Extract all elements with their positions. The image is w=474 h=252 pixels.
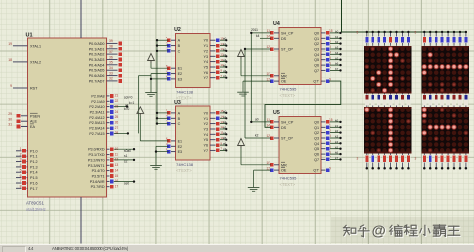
- svg-text:17: 17: [115, 185, 119, 189]
- svg-text:14: 14: [115, 168, 119, 172]
- DM3 bottom junctions: [366, 167, 410, 170]
- U2 input pins A B C: [166, 36, 181, 53]
- svg-text:2: 2: [20, 152, 22, 156]
- junction ST_CP U4: [244, 48, 246, 50]
- middle interconnect pins DM2-DM4: [423, 93, 468, 107]
- svg-text:P1.4: P1.4: [30, 171, 38, 175]
- svg-text:U2: U2: [174, 27, 181, 33]
- IC U4 74HC595 shift register: [273, 21, 321, 85]
- wire P2.7 to node: [114, 132, 128, 134]
- DM4 bottom pins and indicators: [423, 154, 468, 169]
- svg-text:27: 27: [115, 126, 119, 130]
- net label U5 SH_CP: [255, 118, 259, 122]
- wire U1 power pin up: [80, 0, 82, 38]
- svg-text:Y6: Y6: [203, 71, 208, 75]
- svg-text:15: 15: [115, 174, 119, 178]
- IC U5 74HC595 shift register: [273, 110, 321, 174]
- U1 right pin stubs: [107, 43, 118, 186]
- ground symbol below U5: [248, 187, 260, 192]
- svg-text:5: 5: [415, 31, 417, 35]
- junctions U4 output column: [339, 32, 341, 72]
- net label U5 ST_CP: [255, 134, 259, 138]
- U1 right pin logic-state indicators: [110, 41, 123, 189]
- svg-text:P3.0/RXD: P3.0/RXD: [88, 148, 105, 152]
- svg-text:U4: U4: [273, 21, 280, 27]
- watermark text zhihu at-bianchengxiaobawang: [343, 224, 460, 241]
- U2 output state indicators: [216, 38, 220, 79]
- svg-text:P3.3/INT1: P3.3/INT1: [88, 164, 105, 168]
- svg-text:P2.5/A13: P2.5/A13: [89, 121, 104, 125]
- svg-text:C: C: [178, 49, 181, 53]
- U3 input state indicators: [167, 111, 171, 126]
- U1 part name AT89C51: [26, 201, 46, 213]
- svg-text:C: C: [178, 122, 181, 126]
- wire SH_CP bus: [251, 33, 271, 122]
- svg-text:13: 13: [115, 163, 119, 167]
- ground symbol below U4: [237, 92, 249, 96]
- junction P3.6: [133, 180, 135, 182]
- junctions U2 inputs: [156, 39, 158, 52]
- svg-text:k4: k4: [256, 34, 260, 38]
- svg-text:P1.6: P1.6: [30, 182, 38, 186]
- svg-text:P0.2/AD2: P0.2/AD2: [89, 53, 105, 57]
- svg-text:Q2: Q2: [314, 42, 319, 46]
- svg-text:k2: k2: [255, 134, 259, 138]
- U2 part name 74HC138: [176, 90, 194, 101]
- svg-text:Y2: Y2: [203, 49, 208, 53]
- svg-text:P2.7/A15: P2.7/A15: [89, 132, 104, 136]
- U4 left state indicators: [270, 31, 274, 83]
- wire matrix top rail: [342, 31, 466, 33]
- wire P3.6: [114, 181, 134, 183]
- svg-text:a0: a0: [255, 118, 259, 122]
- svg-text:1: 1: [20, 147, 22, 151]
- U5 left pins: [266, 118, 293, 173]
- svg-text:Q4: Q4: [314, 142, 319, 146]
- svg-text:3: 3: [20, 158, 22, 162]
- DM1 top pins and indicators: [365, 32, 410, 46]
- svg-text:P0.3/AD3: P0.3/AD3: [89, 58, 105, 62]
- svg-text:36: 36: [109, 55, 113, 59]
- svg-text:Y5: Y5: [203, 66, 208, 70]
- svg-text:k=1: k=1: [129, 101, 134, 105]
- svg-text:MR: MR: [281, 74, 287, 78]
- wires bus to U3 inputs: [157, 113, 169, 124]
- svg-text:P1.1: P1.1: [30, 155, 38, 159]
- svg-text:3: 3: [415, 157, 417, 161]
- U3 enable pins E1 E2 E3: [166, 137, 182, 154]
- power +5V symbol near U3: [137, 107, 144, 116]
- svg-text:Q7': Q7': [313, 169, 319, 173]
- svg-text:P2.0/A8: P2.0/A8: [91, 94, 104, 98]
- svg-text:P3.6/WR: P3.6/WR: [90, 180, 105, 184]
- IC U1 AT89C51 microcontroller: [26, 33, 107, 198]
- svg-text:P0.0/AD0: P0.0/AD0: [89, 42, 105, 46]
- svg-text:Q5: Q5: [314, 147, 319, 151]
- svg-text:Y1: Y1: [203, 117, 208, 121]
- U4 output pins Q0-Q7: [313, 29, 332, 84]
- junction P3.2: [133, 159, 135, 161]
- power +5V symbol near U5: [238, 139, 245, 149]
- U2 output pins Y0-Y7: [203, 36, 224, 80]
- svg-text:P3.7/RD: P3.7/RD: [91, 185, 105, 189]
- junction U2 E2: [150, 78, 152, 80]
- svg-text:Y3: Y3: [203, 128, 208, 132]
- svg-text:74HC138: 74HC138: [176, 162, 194, 167]
- svg-text:74HC595: 74HC595: [280, 176, 298, 181]
- wire U4 OE to ground: [243, 81, 271, 92]
- svg-text:Y5: Y5: [203, 138, 208, 142]
- svg-text:P3.2/INT0: P3.2/INT0: [88, 158, 105, 162]
- svg-text:P1.5: P1.5: [30, 176, 38, 180]
- U2 enable state indicators: [167, 66, 171, 81]
- junction SH_CP U5: [250, 121, 252, 123]
- svg-text:Q0: Q0: [314, 31, 319, 35]
- junction P2.7: [127, 132, 129, 134]
- svg-text:a1: a1: [125, 104, 129, 108]
- junction P3.0: [133, 148, 135, 150]
- svg-text:OE: OE: [281, 80, 287, 84]
- svg-text:6: 6: [20, 174, 22, 178]
- net label above U4: [251, 28, 258, 32]
- svg-text:18: 18: [8, 58, 12, 62]
- DM1 top pin number: [357, 31, 359, 35]
- wire U5 OE to ground: [254, 170, 271, 186]
- junctions U5 output column: [339, 121, 341, 161]
- U3 part name 74HC138: [176, 162, 194, 173]
- svg-text:sck=0: sck=0: [124, 96, 133, 100]
- DM4 bottom pin number: [415, 157, 417, 161]
- LED dot matrix DM2: [421, 46, 469, 94]
- svg-text:SH_CP: SH_CP: [281, 120, 294, 124]
- wires U2 E2 E3 to ground: [151, 74, 169, 92]
- svg-text:P2.3/A11: P2.3/A11: [90, 111, 105, 115]
- svg-text:U3: U3: [174, 100, 181, 106]
- svg-text:Y4: Y4: [203, 60, 208, 64]
- svg-text:U1: U1: [26, 33, 33, 39]
- U1 right pin numbers: [109, 39, 118, 188]
- svg-text:3: 3: [357, 157, 359, 161]
- svg-text:SH_CP: SH_CP: [281, 31, 294, 35]
- svg-text:39: 39: [109, 39, 113, 43]
- U5 output pins Q0-Q7: [313, 118, 332, 173]
- U1 left pin labels: [30, 44, 41, 191]
- U3 output net labels and wires: [220, 109, 227, 150]
- svg-text:P1.0: P1.0: [30, 149, 38, 153]
- wire U1 ground pin down: [80, 197, 82, 244]
- svg-text:Y2: Y2: [203, 122, 208, 126]
- wires U4 outputs to matrix columns: [330, 33, 341, 71]
- svg-text:P0.5/AD5: P0.5/AD5: [89, 69, 105, 73]
- svg-text:PSEN: PSEN: [30, 114, 40, 118]
- wire power to U3 E1: [140, 116, 168, 141]
- svg-text:XTAL2: XTAL2: [30, 60, 41, 64]
- wire +5V rail top vertical: [341, 0, 343, 32]
- svg-text:<TEXT>: <TEXT>: [176, 168, 192, 173]
- svg-text:U5: U5: [273, 110, 280, 116]
- svg-text:P2.2/A10: P2.2/A10: [89, 105, 104, 109]
- svg-text:5: 5: [20, 168, 22, 172]
- svg-text:<TEXT>: <TEXT>: [280, 182, 296, 187]
- junctions U3 inputs: [156, 112, 158, 125]
- svg-text:22: 22: [115, 99, 119, 103]
- wire P3.2: [114, 159, 134, 161]
- U4 output net labels: [335, 30, 339, 72]
- svg-text:s1: s1: [124, 154, 128, 158]
- svg-text:32: 32: [109, 77, 113, 81]
- svg-text:xtal12MHz: xtal12MHz: [26, 207, 46, 212]
- DM2 top rail junctions: [423, 31, 467, 33]
- DM2 top pin number: [415, 31, 417, 35]
- wire vertical bus x=138: [138, 76, 151, 134]
- svg-text:Q3: Q3: [314, 48, 319, 52]
- DM3 bottom pins and indicators: [365, 154, 410, 169]
- svg-text:P1.2: P1.2: [30, 160, 38, 164]
- svg-text:35: 35: [109, 61, 113, 65]
- svg-text:P1.7: P1.7: [30, 187, 38, 191]
- svg-text:11: 11: [115, 152, 119, 156]
- svg-text:Q3: Q3: [314, 137, 319, 141]
- DM4 bottom junctions: [423, 167, 467, 170]
- svg-text:30: 30: [8, 117, 12, 121]
- svg-text:74HC595: 74HC595: [280, 87, 298, 92]
- svg-text:P0.6/AD6: P0.6/AD6: [89, 74, 105, 78]
- U5 output state indicators: [326, 120, 330, 172]
- svg-text:P2.1/A9: P2.1/A9: [91, 100, 104, 104]
- svg-text:Q5: Q5: [314, 58, 319, 62]
- junction SH_CP U4: [250, 32, 252, 34]
- wire ST_CP bus: [245, 49, 271, 138]
- svg-text:P1.3: P1.3: [30, 165, 38, 169]
- U1 left pin logic-state indicators: [16, 114, 26, 191]
- svg-text:E1: E1: [178, 67, 183, 71]
- svg-text:8: 8: [20, 185, 22, 189]
- svg-text:E3: E3: [178, 150, 183, 154]
- svg-text:P3.5/T1: P3.5/T1: [92, 175, 105, 179]
- svg-text:P0.1/AD1: P0.1/AD1: [89, 47, 105, 51]
- DM1 top rail junctions: [366, 31, 410, 33]
- svg-text:P3.4/T0: P3.4/T0: [92, 169, 105, 173]
- DM2 top pins and indicators: [423, 32, 468, 46]
- LED dot matrix DM1: [364, 46, 412, 94]
- svg-text:Y7: Y7: [203, 149, 208, 153]
- wires U5 outputs: [330, 122, 341, 159]
- U2 input state indicators: [167, 38, 171, 53]
- LED dot matrix DM3: [364, 107, 412, 154]
- svg-text:P0.4/AD4: P0.4/AD4: [89, 63, 105, 67]
- svg-text:P3.1/TXD: P3.1/TXD: [89, 153, 105, 157]
- svg-text:26: 26: [115, 121, 119, 125]
- svg-text:Q2: Q2: [314, 131, 319, 135]
- U4 left pins: [266, 29, 293, 84]
- svg-text:74HC138: 74HC138: [176, 90, 194, 95]
- U2 output net labels and wires: [220, 37, 227, 78]
- svg-text:ST_CP: ST_CP: [281, 48, 293, 52]
- wire cascade U4 Q7 serial to U5 DS: [265, 81, 341, 127]
- svg-text:38: 38: [109, 45, 113, 49]
- svg-text:33: 33: [109, 71, 113, 75]
- svg-text:Q7: Q7: [314, 69, 319, 73]
- U4 output state indicators: [326, 31, 330, 83]
- U2 output junctions: [225, 39, 227, 79]
- svg-text:Y3: Y3: [203, 55, 208, 59]
- ground symbol below U2: [145, 92, 157, 97]
- U3 input pins A B C: [166, 109, 181, 126]
- svg-text:<TEXT>: <TEXT>: [280, 93, 296, 98]
- svg-text:MR: MR: [281, 163, 287, 167]
- svg-text:Y6: Y6: [203, 144, 208, 148]
- svg-text:5: 5: [357, 31, 359, 35]
- svg-text:Q7: Q7: [314, 158, 319, 162]
- wire power to U4 MR: [241, 59, 271, 76]
- U1 right pin labels: [88, 42, 105, 189]
- svg-text:7: 7: [20, 179, 22, 183]
- svg-text:ST_CP: ST_CP: [281, 137, 293, 141]
- svg-text:E2: E2: [178, 145, 183, 149]
- svg-text:21: 21: [115, 94, 119, 98]
- U1 left pin stubs: [13, 46, 28, 189]
- net labels on P2/P3 pins: [124, 96, 134, 186]
- svg-text:@: @: [372, 224, 386, 240]
- U3 output state indicators: [216, 111, 220, 152]
- wire power to U5 MR: [241, 148, 271, 165]
- watermark dark backing band: [331, 217, 474, 243]
- svg-text:Y0: Y0: [203, 39, 208, 43]
- DM3 bottom pin number: [357, 157, 359, 161]
- svg-text:DS: DS: [281, 126, 287, 130]
- svg-text:Q6: Q6: [314, 153, 319, 157]
- U5 left state indicators: [270, 120, 274, 172]
- svg-text:Y7: Y7: [203, 76, 208, 80]
- svg-text:25: 25: [115, 115, 119, 119]
- wire P3.0 clock: [114, 148, 134, 150]
- middle interconnect pins DM1-DM3: [365, 93, 410, 107]
- svg-text:Q0: Q0: [314, 120, 319, 124]
- IC U2 74HC138 decoder: [174, 27, 210, 87]
- svg-text:ALE: ALE: [30, 120, 38, 124]
- wires bus to U2 inputs: [157, 40, 169, 51]
- svg-text:Y0: Y0: [203, 111, 208, 115]
- svg-text:4: 4: [20, 163, 22, 167]
- svg-text:AT89C51: AT89C51: [26, 201, 44, 206]
- svg-text:Y1: Y1: [203, 44, 208, 48]
- LED dot matrix DM4: [421, 107, 469, 154]
- svg-text:E1: E1: [178, 139, 183, 143]
- svg-text:Q6: Q6: [314, 64, 319, 68]
- junction P2.2: [126, 105, 128, 107]
- svg-text:EA: EA: [30, 125, 35, 129]
- status bar: [0, 244, 474, 252]
- U3 enable state indicators: [167, 139, 171, 154]
- svg-text:DS: DS: [281, 37, 287, 41]
- wire select bus vertical: [156, 40, 158, 123]
- svg-text:P2.4/A12: P2.4/A12: [89, 116, 104, 120]
- svg-text:24: 24: [115, 110, 119, 114]
- wire P2.2 to node: [114, 106, 127, 108]
- U3 output pins Y0-Y7: [203, 109, 224, 153]
- U1 left pin numbers: [8, 42, 21, 189]
- svg-text:OE: OE: [281, 169, 287, 173]
- svg-text:31: 31: [8, 123, 12, 127]
- svg-text:RST: RST: [30, 87, 38, 91]
- U2 enable pins E1 E2 E3: [166, 64, 182, 81]
- svg-text:37: 37: [109, 50, 113, 54]
- svg-text:Q4: Q4: [314, 53, 319, 57]
- U3 output junctions: [225, 112, 227, 152]
- svg-text:P2.6/A14: P2.6/A14: [89, 127, 104, 131]
- svg-text:16: 16: [115, 179, 119, 183]
- junction U3 E3: [155, 150, 157, 152]
- wire power to U2 E1: [151, 63, 169, 68]
- svg-text:2011: 2011: [251, 28, 258, 32]
- power +5V symbol near U2: [148, 54, 155, 64]
- svg-text:Q1: Q1: [314, 37, 319, 41]
- U4 part name 74HC595: [280, 87, 298, 99]
- svg-text:P0.7/AD7: P0.7/AD7: [89, 79, 105, 83]
- power +5V symbol near U4: [238, 50, 245, 60]
- svg-text:19: 19: [8, 42, 12, 46]
- svg-text:Q7': Q7': [313, 80, 319, 84]
- svg-text:34: 34: [109, 66, 113, 70]
- U5 part name 74HC595: [280, 176, 298, 188]
- net label a1: [125, 104, 129, 108]
- net label U4 DS: [256, 34, 271, 38]
- svg-text:Y4: Y4: [203, 133, 208, 137]
- svg-text:9: 9: [10, 84, 12, 88]
- svg-text:Q1: Q1: [314, 126, 319, 130]
- IC U3 74HC138 decoder: [174, 100, 210, 160]
- svg-text:XTAL1: XTAL1: [30, 44, 41, 48]
- U5 output net labels: [335, 119, 339, 161]
- ground symbol below U3: [150, 165, 162, 170]
- svg-text:29: 29: [8, 112, 12, 116]
- wires U3 E2 E3 to ground: [156, 146, 169, 164]
- svg-text:E2: E2: [178, 72, 183, 76]
- svg-text:E3: E3: [178, 77, 183, 81]
